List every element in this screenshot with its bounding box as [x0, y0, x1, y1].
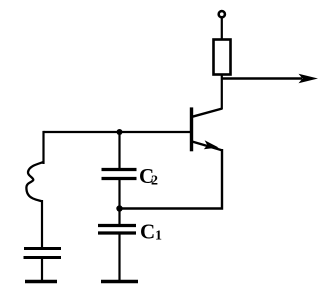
wire resistor to collector node — [221, 74, 223, 110]
base bar — [190, 107, 193, 151]
resistor R1 — [214, 40, 231, 75]
wire capacitor to ground — [41, 258, 43, 282]
capacitor C2 top plate — [102, 168, 137, 171]
bypass capacitor (left) top plate — [24, 247, 61, 250]
junction node (base / C2) — [117, 129, 123, 135]
inductor L1 — [26, 162, 43, 201]
label C2 — [139, 164, 158, 189]
wire top-left corner down to inductor — [42, 131, 44, 164]
output arrow — [221, 74, 318, 83]
wire terminal to resistor — [221, 17, 223, 40]
collector lead — [192, 109, 222, 117]
emitter return wire — [120, 149, 223, 209]
svg-text:C: C — [140, 220, 155, 244]
emitter lead — [192, 142, 222, 151]
wire C2 to junction — [118, 179, 120, 210]
capacitor C1 bottom plate — [98, 231, 136, 234]
bypass capacitor (left) bottom plate — [24, 256, 62, 259]
ground bar (left) — [25, 280, 57, 283]
label C1 — [140, 220, 162, 244]
emitter arrow — [204, 140, 219, 149]
capacitor C2 bottom plate — [102, 177, 137, 180]
wire node to C2 — [118, 132, 120, 170]
ground bar (C1) — [101, 280, 138, 283]
wire junction to C1 — [118, 209, 120, 227]
svg-text:1: 1 — [155, 229, 162, 244]
transistor Q1 — [192, 107, 223, 151]
base wire — [44, 131, 191, 133]
junction node (C2 / C1 / emitter return) — [116, 205, 122, 211]
wire C1 to ground — [118, 233, 120, 281]
terminal (supply) circle — [219, 11, 225, 17]
svg-text:2: 2 — [151, 174, 158, 189]
capacitor C1 top plate — [98, 224, 136, 227]
wire inductor to capacitor — [41, 200, 43, 249]
